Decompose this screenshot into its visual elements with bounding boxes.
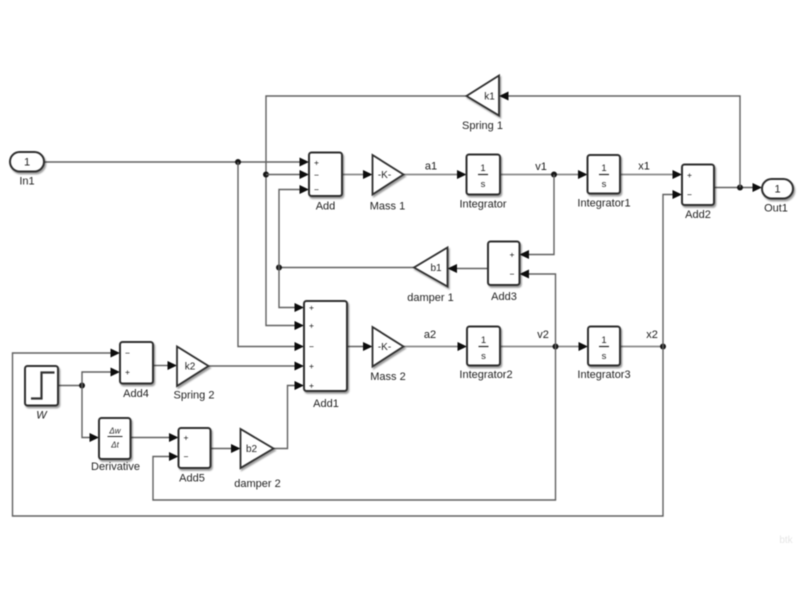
input port In1 — [10, 152, 44, 188]
svg-text:k1: k1 — [484, 92, 495, 103]
svg-text:+: + — [309, 381, 314, 391]
svg-text:b1: b1 — [430, 263, 442, 274]
svg-text:−: − — [510, 269, 515, 279]
wire Derivative output to Add5 plus input — [131, 433, 179, 442]
svg-text:damper 1: damper 1 — [407, 292, 453, 304]
node v1 junction — [551, 172, 557, 178]
svg-text:-K-: -K- — [378, 170, 391, 181]
svg-text:Integrator2: Integrator2 — [459, 369, 512, 381]
gain Spring 2 — [174, 347, 215, 402]
svg-text:+: + — [687, 170, 692, 180]
node Out1 branch junction — [737, 185, 743, 191]
gain Spring 1 — [462, 76, 503, 133]
node v2 junction — [553, 344, 559, 350]
svg-text:btk: btk — [779, 535, 793, 546]
node W branch junction — [79, 383, 85, 389]
svg-text:v1: v1 — [535, 161, 547, 173]
wire top feedback Out1 branch to Spring 1 input — [499, 92, 740, 188]
svg-text:s: s — [481, 179, 486, 190]
svg-text:+: + — [309, 321, 314, 331]
wire x2 down along bottom to Add4 minus input — [13, 347, 664, 517]
wire Add2 output to Out1 — [714, 183, 762, 192]
wire damper branch down to Add1 input 1 — [279, 268, 304, 313]
svg-text:−: − — [687, 190, 692, 200]
svg-text:+: + — [184, 433, 189, 443]
svg-text:Δt: Δt — [110, 441, 119, 450]
wire Add output to Mass 1 — [342, 170, 373, 179]
sum block Add5 — [179, 428, 211, 485]
gain Mass 1 — [370, 155, 405, 213]
wire damper 2 output up to Add1 input 5 — [274, 381, 305, 449]
svg-text:1: 1 — [24, 157, 30, 169]
svg-text:s: s — [602, 351, 607, 362]
gain Mass 2 — [370, 327, 405, 383]
step source W — [25, 366, 58, 422]
svg-text:Mass 2: Mass 2 — [370, 371, 405, 383]
gain damper 2 — [234, 429, 280, 490]
svg-text:Integrator: Integrator — [459, 199, 506, 211]
svg-text:+: + — [309, 303, 314, 313]
svg-text:W: W — [36, 410, 48, 422]
svg-text:Add1: Add1 — [313, 398, 339, 410]
output port Out1 — [762, 179, 793, 215]
wire v2 Integrator2 to Integrator3 — [500, 342, 588, 351]
svg-text:x1: x1 — [638, 161, 650, 173]
node x2 junction — [660, 344, 666, 350]
svg-text:a2: a2 — [424, 329, 436, 341]
svg-text:−: − — [125, 348, 130, 358]
wire v2 up to Add3 minus input — [520, 270, 556, 347]
svg-text:b2: b2 — [246, 444, 258, 455]
integrator block Integrator3 — [577, 327, 630, 382]
wire In1 branch down to Add1 input 3 — [238, 162, 304, 351]
wire Add1 output to Mass 2 — [347, 342, 373, 351]
gain damper 1 — [407, 248, 453, 305]
sum block Add1 — [304, 301, 347, 410]
sum block Add3 — [488, 242, 520, 304]
sum block Add — [309, 153, 342, 213]
svg-text:−: − — [314, 185, 319, 195]
wire v1 Integrator to Integrator1 — [500, 170, 588, 179]
wire v1 down to Add3 plus input — [520, 175, 555, 260]
wire a2 Mass 2 to Integrator2 — [404, 342, 468, 351]
svg-text:Add3: Add3 — [491, 291, 517, 303]
node damper 1 branch junction — [276, 265, 282, 271]
svg-text:+: + — [314, 158, 319, 168]
svg-text:+: + — [309, 361, 314, 371]
svg-text:Spring 2: Spring 2 — [174, 390, 215, 402]
svg-text:+: + — [510, 250, 515, 260]
svg-text:Add2: Add2 — [685, 209, 711, 221]
wire damper branch up to Add input 3 — [279, 185, 309, 268]
svg-text:−: − — [314, 170, 319, 180]
derivative block — [91, 418, 140, 473]
svg-text:1: 1 — [774, 184, 780, 196]
svg-text:Out1: Out1 — [764, 203, 788, 215]
svg-text:s: s — [602, 179, 607, 190]
svg-text:1: 1 — [601, 163, 606, 174]
wire Add5 output to damper 2 — [211, 444, 241, 453]
wire x2 Integrator3 to junction — [620, 346, 663, 348]
sum block Add4 — [120, 342, 153, 400]
svg-text:-K-: -K- — [378, 342, 391, 353]
svg-text:1: 1 — [481, 335, 486, 346]
svg-text:Derivative: Derivative — [91, 461, 140, 473]
svg-text:Add4: Add4 — [123, 388, 149, 400]
wire Add3 output to damper 1 input — [448, 264, 489, 273]
wire Spring 1 output left and down to Add1 input 2 — [266, 96, 467, 330]
node junction on In1 line — [235, 159, 241, 165]
wire In1 to Add input 1 — [44, 158, 309, 167]
svg-text:1: 1 — [601, 335, 606, 346]
svg-text:x2: x2 — [646, 329, 658, 341]
svg-text:−: − — [309, 342, 314, 352]
svg-text:Add: Add — [316, 201, 336, 213]
svg-text:s: s — [481, 351, 486, 362]
svg-text:Δw: Δw — [108, 427, 121, 436]
svg-text:k2: k2 — [185, 362, 196, 373]
wire branch to Add input 2 — [266, 170, 309, 179]
wire W branch down to Derivative input — [82, 386, 99, 443]
svg-text:Mass 1: Mass 1 — [370, 201, 405, 213]
integrator block Integrator1 — [577, 155, 630, 210]
wire damper 1 output left — [279, 267, 414, 269]
svg-text:In1: In1 — [19, 176, 34, 188]
node spring feedback junction at Add input 2 — [263, 172, 269, 178]
svg-text:a1: a1 — [425, 161, 437, 173]
wire W output — [58, 385, 82, 387]
sum block Add2 — [682, 165, 714, 222]
integrator block Integrator2 — [459, 327, 512, 382]
svg-text:v2: v2 — [537, 329, 549, 341]
wire a1 Mass 1 to Integrator — [404, 170, 467, 179]
wire x1 Integrator1 to Add2 input 1 — [620, 170, 682, 179]
wire x2 up to Add2 minus input — [663, 190, 682, 347]
svg-text:damper 2: damper 2 — [234, 478, 280, 490]
svg-text:1: 1 — [480, 163, 485, 174]
integrator block Integrator — [459, 155, 506, 211]
svg-text:Add5: Add5 — [179, 473, 205, 485]
svg-text:−: − — [184, 452, 189, 462]
svg-text:+: + — [125, 367, 130, 377]
svg-text:Spring 1: Spring 1 — [462, 120, 503, 132]
wire Add4 output to Spring 2 — [153, 361, 177, 370]
wire W branch up to Add4 plus input — [82, 368, 120, 386]
svg-text:Integrator1: Integrator1 — [577, 198, 630, 210]
wire v2 down along bottom to Add5 minus input — [153, 347, 556, 501]
wire Spring 2 output to Add1 input 4 — [209, 362, 305, 371]
svg-text:Integrator3: Integrator3 — [577, 369, 630, 381]
